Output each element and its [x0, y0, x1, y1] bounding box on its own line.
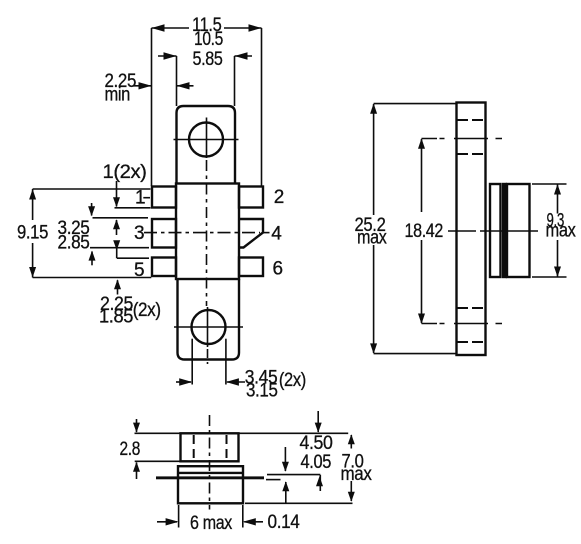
svg-text:max: max	[357, 228, 387, 249]
svg-text:6 max: 6 max	[190, 513, 233, 534]
svg-text:10.5: 10.5	[194, 29, 223, 50]
svg-text:1.85: 1.85	[99, 307, 133, 328]
svg-text:0.14: 0.14	[268, 512, 301, 533]
svg-text:5.85: 5.85	[193, 49, 223, 70]
svg-text:3.15: 3.15	[246, 381, 278, 402]
svg-text:(2x): (2x)	[133, 300, 161, 321]
svg-text:2.8: 2.8	[120, 439, 141, 460]
svg-text:1(2x): 1(2x)	[103, 162, 147, 183]
svg-text:18.42: 18.42	[405, 221, 444, 242]
svg-text:6: 6	[273, 259, 283, 280]
svg-text:max: max	[546, 221, 577, 242]
svg-text:2: 2	[274, 187, 284, 208]
svg-text:4.05: 4.05	[301, 452, 332, 473]
svg-text:(2x): (2x)	[279, 370, 306, 391]
svg-text:2.85: 2.85	[58, 232, 90, 253]
svg-text:max: max	[341, 464, 373, 485]
svg-text:4.50: 4.50	[300, 433, 333, 454]
svg-text:5: 5	[134, 260, 144, 281]
svg-text:4: 4	[271, 224, 282, 245]
svg-text:min: min	[105, 85, 131, 106]
svg-text:3: 3	[134, 223, 144, 244]
svg-text:9.15: 9.15	[17, 223, 48, 244]
